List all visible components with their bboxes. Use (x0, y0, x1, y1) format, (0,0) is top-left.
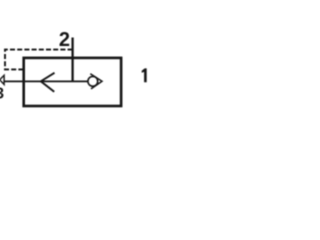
port 1 label (142, 68, 147, 82)
svg-text:2: 2 (59, 29, 70, 51)
port 2 line (71, 38, 73, 82)
valve body (24, 58, 121, 106)
check valve ball (88, 76, 98, 86)
wire: flow line port 3 to check valve (4, 80, 88, 82)
exhaust flow arrow (41, 73, 55, 92)
check valve seat (90, 74, 102, 89)
pilot line (dashed) (5, 50, 73, 70)
exhaust triangle port 3 (0, 75, 4, 84)
svg-text:3: 3 (0, 85, 4, 102)
